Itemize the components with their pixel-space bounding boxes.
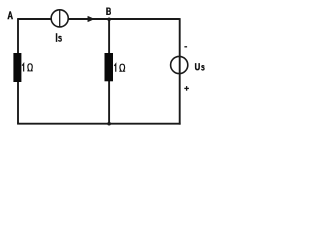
resistor R2 (middle, 1 ohm) <box>105 53 114 81</box>
label Is <box>57 33 62 42</box>
wire right branch <box>179 18 181 125</box>
polarity minus <box>184 46 187 48</box>
current direction arrow <box>88 16 94 22</box>
wire middle branch <box>108 19 110 124</box>
wire left branch <box>17 18 19 124</box>
wire top (A to B to right corner) <box>18 18 180 20</box>
resistor R1 (left, 1 ohm) <box>13 53 21 82</box>
voltage source Us (circle, wire passes through) <box>171 56 188 73</box>
value label 1 Ohm (middle) <box>114 64 125 72</box>
bottom junction dot <box>107 122 111 126</box>
current source Is (circle with perpendicular bar) <box>51 10 68 27</box>
polarity plus <box>184 86 189 91</box>
label Us <box>196 63 204 70</box>
value label 1 Ohm (left) <box>22 64 33 72</box>
node B junction dot <box>107 18 111 22</box>
wire bottom <box>17 123 181 125</box>
node B label <box>107 8 110 16</box>
node A label <box>7 11 13 19</box>
